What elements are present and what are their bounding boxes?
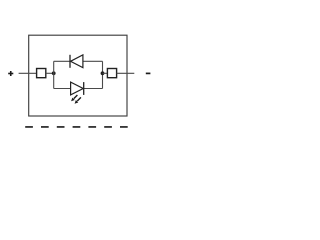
node B junction dot [101,71,105,75]
resistor R1 (left square) [37,69,46,78]
wire left lead [19,72,37,74]
rail marking dashed line [25,126,128,128]
wire right lead [117,72,135,74]
wire top branch [54,60,103,62]
terminal label + [8,71,13,76]
LED emission arrow 1 [71,95,77,101]
wire R1 to node A [46,72,54,74]
wire right branch vertical [102,61,104,88]
wire left branch vertical [53,61,55,88]
diode D1 (top, cathode left) [70,55,83,68]
LED D2 (bottom, cathode right) [71,82,84,95]
wire node B to R2 [103,72,108,74]
node A junction dot [52,71,56,75]
module outline box [29,35,127,116]
wire bottom branch [54,88,103,90]
LED emission arrow 2 [75,97,81,103]
resistor R2 (right square) [107,69,116,78]
terminal label - [146,72,151,74]
